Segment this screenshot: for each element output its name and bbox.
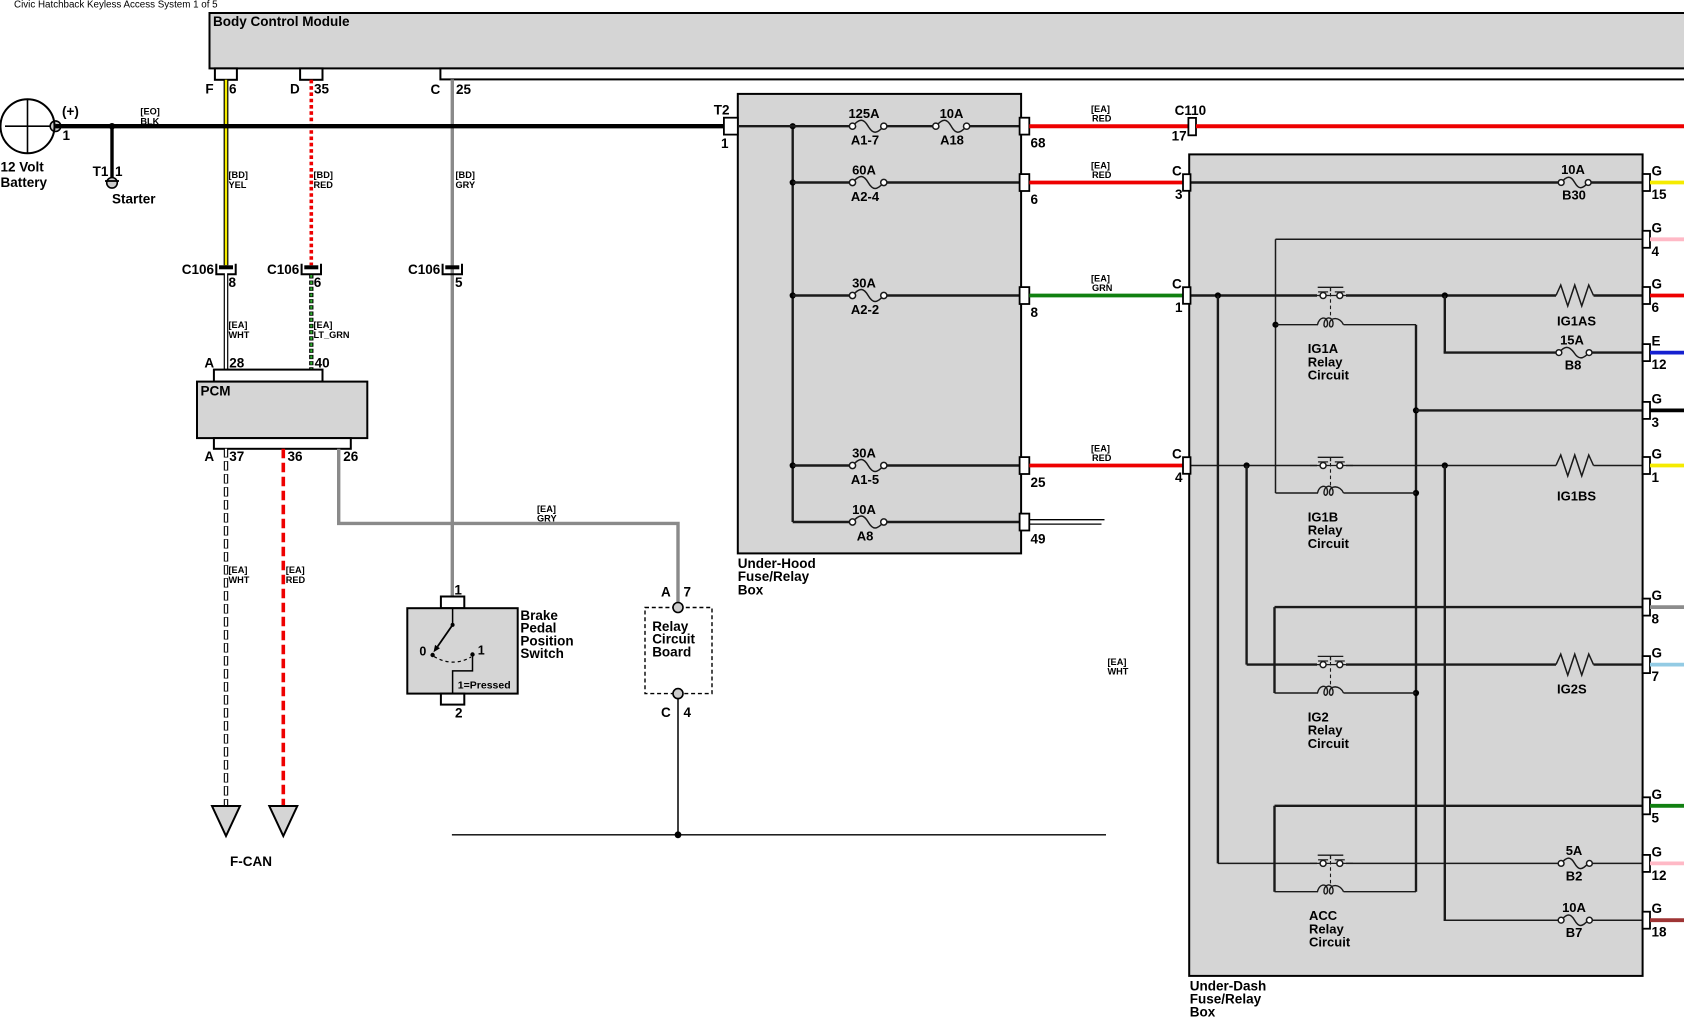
svg-text:C106: C106 xyxy=(182,262,215,277)
under-dash pin C 4 xyxy=(1172,447,1191,486)
svg-text:[EA]: [EA] xyxy=(314,320,333,330)
svg-text:1: 1 xyxy=(1652,470,1660,485)
branch line to fuse 125A A1-7 and 10A A18 xyxy=(738,125,1020,127)
IG1A relay coil xyxy=(1276,318,1417,327)
under-dash pin G 15 with yellow stub xyxy=(1643,164,1684,203)
wire [EA] RED pin 25 to under-dash C4 xyxy=(1029,464,1183,468)
svg-text:Starter: Starter xyxy=(112,192,156,207)
svg-text:G: G xyxy=(1652,220,1663,235)
svg-text:(+): (+) xyxy=(62,104,79,119)
svg-text:C: C xyxy=(661,705,671,720)
line C4 to G1 with IG1B switch and IG1BS resistor xyxy=(1191,465,1643,467)
branch line to fuse 30A A1-5 xyxy=(793,464,1020,466)
under-dash pin G 18 with dark red stub xyxy=(1643,901,1684,940)
svg-text:Circuit: Circuit xyxy=(1308,368,1350,383)
svg-text:RED: RED xyxy=(1092,453,1112,463)
svg-text:WHT: WHT xyxy=(1108,667,1129,677)
12 Volt Battery symbol xyxy=(1,99,61,153)
fuse 15A B8 xyxy=(1556,332,1592,372)
svg-text:28: 28 xyxy=(229,355,245,370)
vertical C1 junction to ACC switch xyxy=(1217,296,1219,864)
svg-text:8: 8 xyxy=(1652,612,1660,627)
junction C1 branch xyxy=(1215,292,1221,298)
svg-text:[BD]: [BD] xyxy=(229,170,248,180)
svg-text:Battery: Battery xyxy=(1,175,48,190)
fuse 125A A1-7 xyxy=(848,106,886,148)
svg-text:4: 4 xyxy=(684,705,692,720)
svg-text:[BD]: [BD] xyxy=(314,170,333,180)
svg-text:B7: B7 xyxy=(1566,925,1583,940)
svg-text:F: F xyxy=(205,81,213,96)
svg-text:B30: B30 xyxy=(1562,188,1586,203)
BCM long connector tab C xyxy=(440,68,1684,79)
label [EA] RED xyxy=(286,565,306,585)
svg-text:A18: A18 xyxy=(940,133,964,148)
svg-text:[EA]: [EA] xyxy=(1091,444,1110,454)
svg-text:A1-7: A1-7 xyxy=(851,133,879,148)
svg-text:G: G xyxy=(1652,164,1663,179)
fuse 10A B30 xyxy=(1558,162,1591,202)
label Relay Circuit Board xyxy=(652,619,695,659)
PCM bottom connector tab xyxy=(214,438,351,449)
svg-text:7: 7 xyxy=(684,585,692,600)
svg-text:125A: 125A xyxy=(848,106,880,121)
svg-text:26: 26 xyxy=(343,449,359,464)
svg-text:6: 6 xyxy=(1652,300,1660,315)
vertical B7 feed from IG1B junction xyxy=(1444,466,1446,921)
label [EA] WHT xyxy=(229,565,250,585)
svg-text:[EA]: [EA] xyxy=(1091,274,1110,284)
fuse 10A A8 xyxy=(849,502,887,544)
vertical C4 junction to IG2 switch xyxy=(1245,466,1247,665)
svg-text:5: 5 xyxy=(1652,810,1660,825)
dashed travel arc xyxy=(434,657,471,663)
svg-text:IG2S: IG2S xyxy=(1557,682,1587,697)
svg-text:C106: C106 xyxy=(267,262,300,277)
svg-text:GRN: GRN xyxy=(1092,283,1113,293)
IG2 relay coil xyxy=(1275,686,1417,695)
svg-text:1: 1 xyxy=(478,644,485,658)
under-hood pin 6 tab xyxy=(1020,174,1030,191)
label [EA] LT_GRN xyxy=(314,320,350,340)
svg-text:12: 12 xyxy=(1652,357,1667,372)
svg-text:30A: 30A xyxy=(852,275,876,290)
under-hood pin 68 tab xyxy=(1020,118,1030,135)
svg-text:1: 1 xyxy=(115,164,123,179)
svg-text:G: G xyxy=(1652,787,1663,802)
wire [EA] RED pin 68 to C110 xyxy=(1029,124,1188,128)
svg-text:A8: A8 xyxy=(857,528,874,543)
svg-text:3: 3 xyxy=(1652,415,1660,430)
svg-text:10A: 10A xyxy=(940,106,964,121)
bus junction nodes xyxy=(790,123,796,129)
svg-text:1: 1 xyxy=(721,136,729,151)
svg-text:8: 8 xyxy=(229,275,237,290)
svg-text:1: 1 xyxy=(63,128,71,143)
svg-text:WHT: WHT xyxy=(229,575,250,585)
svg-text:[EA]: [EA] xyxy=(286,565,305,575)
svg-text:[EA]: [EA] xyxy=(229,565,248,575)
label Under-Hood Fuse/Relay Box xyxy=(738,556,816,597)
svg-text:5: 5 xyxy=(455,275,463,290)
svg-text:C: C xyxy=(1172,164,1182,179)
under-hood pin 25 tab xyxy=(1020,457,1030,474)
svg-text:G: G xyxy=(1652,844,1663,859)
svg-text:Switch: Switch xyxy=(520,646,564,661)
under-dash pin G 3 with black stub xyxy=(1643,391,1684,430)
wire from relay board C4 down xyxy=(677,699,679,835)
label IG1B Relay Circuit xyxy=(1308,510,1350,551)
F-CAN arrow terminal (WHT) xyxy=(212,806,240,836)
svg-text:1: 1 xyxy=(1175,300,1183,315)
svg-text:B2: B2 xyxy=(1566,868,1583,883)
under-dash pin C 3 xyxy=(1172,164,1191,203)
svg-text:RED: RED xyxy=(314,180,334,190)
svg-text:A2-2: A2-2 xyxy=(851,302,879,317)
svg-text:E: E xyxy=(1652,334,1661,349)
long vertical from IG1A coil down to ACC coil xyxy=(1415,325,1417,892)
line 10A B7 to G18 xyxy=(1444,919,1643,921)
label [EA] RED xyxy=(1091,161,1112,181)
svg-text:6: 6 xyxy=(229,81,237,96)
label [EA] GRY xyxy=(537,504,557,524)
under-dash pin G 8 with gray stub xyxy=(1643,588,1684,627)
connector C106 pin 8 xyxy=(182,262,237,290)
wire to starter T1 xyxy=(110,126,113,178)
fuse 60A A2-4 xyxy=(849,162,887,204)
switch pivot xyxy=(451,623,455,627)
svg-text:18: 18 xyxy=(1652,925,1668,940)
junction C4 branch xyxy=(1244,462,1250,468)
connector C106 pin 6 xyxy=(267,262,322,290)
Relay Circuit Board dashed box xyxy=(645,608,712,694)
svg-text:[EA]: [EA] xyxy=(1091,104,1110,114)
svg-text:[EA]: [EA] xyxy=(229,320,248,330)
svg-text:7: 7 xyxy=(1652,669,1660,684)
resistor IG1BS xyxy=(1556,455,1596,504)
svg-text:37: 37 xyxy=(229,449,244,464)
wire [BD] YEL from BCM F6 to C106 xyxy=(224,80,229,265)
svg-text:T2: T2 xyxy=(714,103,730,118)
svg-text:G: G xyxy=(1652,646,1663,661)
junction at G3 line xyxy=(1413,407,1419,413)
fuse 30A A1-5 xyxy=(849,445,887,487)
svg-text:WHT: WHT xyxy=(229,330,250,340)
svg-text:C: C xyxy=(1172,447,1182,462)
junction to 15A B8 xyxy=(1442,292,1448,298)
svg-text:A: A xyxy=(204,355,214,370)
svg-text:1=Pressed: 1=Pressed xyxy=(458,680,511,692)
under-dash pin G 6 with red stub xyxy=(1643,277,1684,316)
svg-text:15: 15 xyxy=(1652,187,1668,202)
under-dash pin C 1 xyxy=(1172,277,1191,316)
under-dash pin G 5 with green stub xyxy=(1643,787,1684,826)
line C3 to G15 with fuse 10A B30 xyxy=(1191,181,1643,183)
label IG2 Relay Circuit xyxy=(1308,710,1350,751)
connector C106 pin 5 xyxy=(408,262,463,290)
IG1B relay switch xyxy=(1310,457,1353,486)
wire contact 1 to pin 2 xyxy=(453,656,473,694)
svg-text:[EO]: [EO] xyxy=(140,107,159,117)
label [EO] BLK xyxy=(140,107,159,127)
svg-text:Board: Board xyxy=(652,644,691,659)
svg-text:[EA]: [EA] xyxy=(537,504,556,514)
svg-text:68: 68 xyxy=(1031,136,1047,151)
switch common lead xyxy=(452,608,454,624)
label [EA] WHT xyxy=(229,320,250,340)
svg-text:RED: RED xyxy=(1092,170,1112,180)
starter terminal symbol xyxy=(105,178,119,189)
IG2 relay switch xyxy=(1310,656,1353,686)
svg-text:35: 35 xyxy=(314,81,330,96)
junction at IG1B coil xyxy=(1413,490,1419,496)
svg-text:LT_GRN: LT_GRN xyxy=(314,330,350,340)
svg-text:10A: 10A xyxy=(852,502,876,517)
svg-text:RED: RED xyxy=(286,575,306,585)
svg-text:36: 36 xyxy=(288,449,304,464)
svg-text:G: G xyxy=(1652,901,1663,916)
svg-text:A2-4: A2-4 xyxy=(851,189,880,204)
main wire [EO] BLK battery to under-hood box xyxy=(56,124,725,128)
under-dash pin G 7 with light blue stub xyxy=(1643,646,1684,685)
label 12 Volt Battery xyxy=(1,160,48,191)
label Under-Dash Fuse/Relay Box xyxy=(1190,978,1267,1017)
PCM bottom pin labels A 37 36 26 xyxy=(204,449,358,464)
line G3 xyxy=(1416,409,1643,411)
IG1B relay coil xyxy=(1276,486,1417,495)
branch line to fuse 10A A8 xyxy=(793,521,1020,523)
svg-text:B8: B8 xyxy=(1565,358,1582,373)
svg-text:12 Volt: 12 Volt xyxy=(1,160,45,175)
svg-text:GRY: GRY xyxy=(537,514,557,524)
PCM box xyxy=(197,382,367,439)
ACC relay coil xyxy=(1275,885,1417,894)
label [EA] GRN xyxy=(1091,274,1113,294)
svg-text:Box: Box xyxy=(738,582,764,597)
under-dash pin G 4 with pink stub xyxy=(1643,220,1684,258)
svg-text:49: 49 xyxy=(1031,531,1046,546)
under-hood pin 8 tab xyxy=(1020,287,1030,304)
label [BD] RED xyxy=(314,170,334,190)
Under-Dash Fuse/Relay Box xyxy=(1189,154,1642,976)
vertical IG1AS junction to 15A B8 xyxy=(1444,296,1446,353)
resistor IG1AS xyxy=(1556,285,1596,329)
wire [EA] GRY from PCM A26 to Relay Circuit Board A7 xyxy=(339,449,678,603)
svg-text:RED: RED xyxy=(1092,114,1112,124)
contact 0 xyxy=(430,653,434,657)
PCM top connector tab xyxy=(214,370,323,382)
vertical G4 to IG1A/IG1B coils xyxy=(1275,239,1277,493)
svg-text:4: 4 xyxy=(1652,244,1660,259)
svg-text:Circuit: Circuit xyxy=(1308,536,1350,551)
svg-text:PCM: PCM xyxy=(201,384,231,399)
label [EA] WHT floating xyxy=(1108,657,1129,677)
wire [EA] WHT dashed from PCM A37 to F-CAN xyxy=(224,449,228,806)
svg-text:25: 25 xyxy=(1031,475,1047,490)
label ACC Relay Circuit xyxy=(1309,908,1351,949)
svg-text:0: 0 xyxy=(419,645,426,659)
label IG1A Relay Circuit xyxy=(1308,341,1350,382)
svg-text:30A: 30A xyxy=(852,445,876,460)
svg-text:YEL: YEL xyxy=(229,180,247,190)
svg-text:C110: C110 xyxy=(1175,103,1207,118)
svg-text:G: G xyxy=(1652,447,1663,462)
junction at IG2 coil xyxy=(1413,690,1419,696)
svg-text:25: 25 xyxy=(456,82,472,97)
svg-text:15A: 15A xyxy=(1560,332,1584,347)
svg-text:A1-5: A1-5 xyxy=(851,472,879,487)
svg-text:C: C xyxy=(1172,277,1182,292)
svg-text:IG1BS: IG1BS xyxy=(1557,489,1596,504)
relay board pin C4 xyxy=(673,689,683,699)
wire [EA] WHT from C106 to PCM A28 xyxy=(224,273,229,370)
Body Control Module box xyxy=(210,13,1684,68)
wire [BD] RED dotted from BCM D35 to C106 xyxy=(309,80,313,265)
svg-text:GRY: GRY xyxy=(456,180,476,190)
under-dash pin G 1 with yellow stub xyxy=(1643,447,1684,486)
line IG2 switch to G7 with IG2S resistor xyxy=(1247,663,1643,665)
wire [EA] GRN pin 8 to under-dash C1 xyxy=(1029,294,1183,298)
svg-text:Circuit: Circuit xyxy=(1308,736,1350,751)
svg-text:G: G xyxy=(1652,277,1663,292)
svg-text:Box: Box xyxy=(1190,1005,1216,1017)
contact 1 xyxy=(470,652,474,656)
PCM top pin labels A 28 40 xyxy=(204,355,329,370)
svg-text:6: 6 xyxy=(1031,192,1039,207)
svg-text:12: 12 xyxy=(1652,868,1667,883)
svg-text:6: 6 xyxy=(314,275,322,290)
junction node at T1 branch xyxy=(109,123,115,129)
BCM connector tab F xyxy=(215,68,237,79)
svg-text:8: 8 xyxy=(1031,305,1039,320)
svg-text:10A: 10A xyxy=(1561,162,1585,177)
svg-text:10A: 10A xyxy=(1562,900,1586,915)
IG1A relay switch xyxy=(1310,287,1353,318)
svg-text:C106: C106 xyxy=(408,262,441,277)
junction at IG1A coil xyxy=(1272,322,1278,328)
branch line to fuse 30A A2-2 xyxy=(793,294,1020,296)
under-hood pin T2 1 tab xyxy=(724,118,738,135)
line C1 to G6 with IG1A switch and IG1AS resistor xyxy=(1191,294,1643,296)
svg-text:D: D xyxy=(290,81,300,96)
line ACC switch to G12 with fuse 5A B2 xyxy=(1218,862,1643,864)
svg-text:G: G xyxy=(1652,391,1663,406)
svg-text:2: 2 xyxy=(455,706,463,721)
line G8 to IG2 coil xyxy=(1275,607,1643,693)
relay board pin A7 xyxy=(673,603,683,613)
under-hood pin 49 tab xyxy=(1020,514,1030,531)
svg-text:60A: 60A xyxy=(852,162,876,177)
wire [EA] RED pin 6 to under-dash C3 xyxy=(1029,181,1183,185)
under-dash pin E 12 with blue stub xyxy=(1643,334,1684,373)
label [EA] RED xyxy=(1091,444,1112,464)
switch arm with arrowhead xyxy=(434,625,453,652)
BCM connector tab D xyxy=(300,68,322,79)
junction to 10A B7 xyxy=(1442,462,1448,468)
label [EA] RED xyxy=(1091,104,1112,124)
svg-text:[EA]: [EA] xyxy=(1091,161,1110,171)
line G4 into box xyxy=(1276,238,1643,240)
junction node xyxy=(675,831,682,838)
bottom horizontal wire xyxy=(452,834,1106,836)
fuse 10A B7 xyxy=(1558,900,1592,940)
connector C110 pin 17 xyxy=(1188,118,1196,135)
line G5 to ACC coil xyxy=(1275,806,1643,892)
Brake Pedal Position Switch box xyxy=(407,608,517,693)
svg-text:Civic Hatchback Keyless Access: Civic Hatchback Keyless Access System 1 … xyxy=(14,0,218,11)
brake switch bottom tab pin 2 xyxy=(441,694,464,705)
Under-Hood Fuse/Relay Box xyxy=(738,94,1021,554)
line 15A B8 to E12 xyxy=(1444,351,1643,353)
svg-text:[EA]: [EA] xyxy=(1108,657,1127,667)
fuse 10A A18 xyxy=(933,106,970,148)
svg-text:3: 3 xyxy=(1175,187,1183,202)
wire [EA] LT_GRN dotted from C106 to PCM A40 xyxy=(309,275,313,370)
svg-text:Circuit: Circuit xyxy=(1309,935,1351,950)
label Brake Pedal Position Switch xyxy=(520,608,573,661)
branch line to fuse 60A A2-4 xyxy=(793,181,1020,183)
wire [BD] GRY from BCM C25 to Brake Pedal Position Switch xyxy=(451,79,454,596)
wire RED from C110 to right edge xyxy=(1196,124,1684,128)
wire [EA] RED dashed from PCM A36 to F-CAN xyxy=(281,449,285,806)
resistor IG2S xyxy=(1556,654,1594,696)
svg-text:Body Control Module: Body Control Module xyxy=(213,14,350,29)
svg-text:17: 17 xyxy=(1172,128,1187,143)
label T1 1 xyxy=(93,164,123,179)
ACC relay switch xyxy=(1310,855,1353,885)
svg-text:C: C xyxy=(431,82,441,97)
svg-text:IG1AS: IG1AS xyxy=(1557,314,1596,329)
fuse 30A A2-2 xyxy=(849,275,887,317)
svg-text:F-CAN: F-CAN xyxy=(230,854,272,869)
brake switch top tab pin 1 xyxy=(441,597,464,609)
svg-text:A: A xyxy=(204,449,214,464)
svg-text:5A: 5A xyxy=(1566,843,1583,858)
svg-text:1: 1 xyxy=(454,583,462,598)
svg-text:A: A xyxy=(661,585,671,600)
under-dash pin G 12 with pink stub xyxy=(1643,844,1684,883)
svg-text:BLK: BLK xyxy=(140,117,159,127)
svg-text:[BD]: [BD] xyxy=(456,170,475,180)
open white wire pair from pin 49 xyxy=(1029,520,1104,524)
label [BD] YEL xyxy=(229,170,248,190)
F-CAN arrow terminal (RED) xyxy=(269,806,297,836)
svg-text:4: 4 xyxy=(1175,470,1183,485)
svg-text:G: G xyxy=(1652,588,1663,603)
svg-text:T1: T1 xyxy=(93,164,109,179)
internal bus line xyxy=(792,126,794,522)
svg-text:40: 40 xyxy=(315,355,330,370)
label [BD] GRY xyxy=(456,170,476,190)
fuse 5A B2 xyxy=(1558,843,1592,883)
